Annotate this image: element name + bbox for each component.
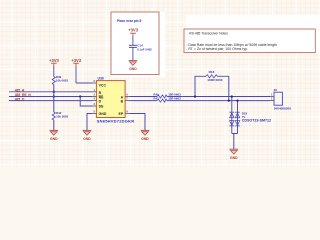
svg-text:U30: U30 bbox=[98, 77, 104, 81]
svg-text:GND: GND bbox=[83, 137, 91, 141]
wire bbox=[53, 120, 55, 130]
pin 4 D bbox=[92, 98, 96, 101]
wire (DE jog) bbox=[80, 97, 92, 107]
svg-text:EP: EP bbox=[119, 112, 124, 116]
ground (EP) bbox=[141, 130, 150, 141]
wire (GND pin to ground) bbox=[87, 114, 92, 131]
svg-text:GND: GND bbox=[50, 137, 58, 141]
wire 485_D bbox=[9, 100, 92, 102]
svg-text:GND: GND bbox=[99, 112, 107, 116]
pin 2 RE bbox=[92, 93, 96, 96]
svg-text:GND: GND bbox=[141, 137, 149, 141]
svg-text:J6: J6 bbox=[273, 88, 277, 92]
svg-text:- RT = Zo of twisted pair, 100: - RT = Zo of twisted pair, 100 Ohms typ. bbox=[186, 47, 248, 51]
power +3V3 (pull-up rail) bbox=[49, 58, 59, 77]
node (TVS to A) bbox=[231, 95, 233, 97]
ground (GND pin) bbox=[83, 130, 92, 141]
pin 8 VCC bbox=[92, 80, 96, 83]
pin 6 A bbox=[125, 93, 129, 96]
wire 485_R bbox=[9, 91, 92, 93]
svg-text:485_D: 485_D bbox=[15, 98, 25, 102]
pin 5 GND bbox=[92, 110, 96, 113]
svg-text:CDSOT23-SM712: CDSOT23-SM712 bbox=[242, 119, 271, 123]
pin 3 DE bbox=[92, 103, 96, 106]
svg-text:+3V3: +3V3 bbox=[128, 27, 138, 32]
wire 485_B bbox=[129, 100, 157, 102]
pin 1 (J6) bbox=[270, 93, 274, 96]
TVS D18 branch B bbox=[235, 101, 271, 134]
svg-text:R41: R41 bbox=[153, 97, 159, 101]
wire 485_RE_N bbox=[9, 96, 92, 98]
wire bbox=[53, 85, 55, 113]
svg-text:100R 0603: 100R 0603 bbox=[207, 78, 222, 82]
wire (EP to ground) bbox=[129, 114, 145, 131]
power +3V3 (VCC) bbox=[71, 58, 81, 83]
ground (R42) bbox=[50, 130, 59, 141]
wire (TVS common to ground) bbox=[232, 134, 238, 149]
svg-text:SN65HVD72DGKR: SN65HVD72DGKR bbox=[97, 119, 135, 124]
svg-text:RS-485 Transceiver Notes: RS-485 Transceiver Notes bbox=[189, 31, 228, 35]
note box: Place near pin 8 bbox=[111, 12, 165, 78]
resistor R41 bbox=[153, 97, 181, 103]
svg-text:GND: GND bbox=[129, 67, 137, 71]
TVS D18 branch A bbox=[229, 97, 234, 134]
svg-text:485_RE_N: 485_RE_N bbox=[15, 93, 32, 97]
svg-text:10R 0603: 10R 0603 bbox=[168, 97, 181, 101]
svg-text:R18: R18 bbox=[209, 70, 215, 74]
wire bbox=[132, 47, 134, 60]
notes box: RS-485 Transceiver Notes bbox=[184, 15, 320, 53]
connector J6 bbox=[273, 88, 291, 111]
svg-text:0.1uF 0402: 0.1uF 0402 bbox=[137, 48, 152, 52]
node (R18 to A) bbox=[194, 95, 196, 97]
svg-text:GND: GND bbox=[230, 156, 238, 160]
svg-text:+3V3: +3V3 bbox=[49, 58, 59, 63]
node (TVS to B) bbox=[236, 99, 238, 101]
node (RE/DE tie) bbox=[79, 95, 81, 97]
svg-text:10k 0603: 10k 0603 bbox=[56, 114, 68, 118]
ground (TVS) bbox=[230, 149, 239, 160]
ground (C14) bbox=[129, 61, 138, 72]
wire bbox=[167, 96, 270, 98]
node (R39 to 485_R) bbox=[53, 91, 55, 93]
svg-text:10k 0603: 10k 0603 bbox=[56, 79, 68, 83]
pin 2 (J6) bbox=[270, 98, 274, 101]
wire 485_A bbox=[129, 96, 157, 98]
pin 1 R bbox=[92, 89, 96, 92]
svg-text:+3V3: +3V3 bbox=[71, 58, 81, 63]
pin 9 EP bbox=[125, 110, 129, 113]
power +3V3 (decoupling) bbox=[128, 27, 138, 45]
resistor R39 bbox=[52, 75, 68, 84]
pin 7 B bbox=[125, 98, 129, 101]
transceiver U30 (SN65HVD72DGKR) bbox=[96, 77, 134, 124]
svg-text:- Data Rate must be less than: - Data Rate must be less than 1Mbps w/ 5… bbox=[186, 43, 277, 47]
svg-text:DE: DE bbox=[99, 104, 105, 108]
node (R18 to B) bbox=[228, 99, 230, 101]
wire bbox=[167, 100, 270, 102]
resistor R40 bbox=[153, 92, 181, 98]
resistor R42 bbox=[52, 111, 68, 120]
svg-text:485_R: 485_R bbox=[15, 89, 25, 93]
wire (VCC feed) bbox=[76, 82, 92, 84]
svg-text:VCC: VCC bbox=[99, 83, 107, 87]
svg-text:5404008200: 5404008200 bbox=[274, 107, 291, 111]
capacitor C14 bbox=[129, 44, 152, 52]
node (R42 to 485_RE_N) bbox=[53, 95, 55, 97]
svg-text:Place near pin 8: Place near pin 8 bbox=[117, 19, 141, 23]
resistor R18 (termination) bbox=[195, 70, 229, 100]
